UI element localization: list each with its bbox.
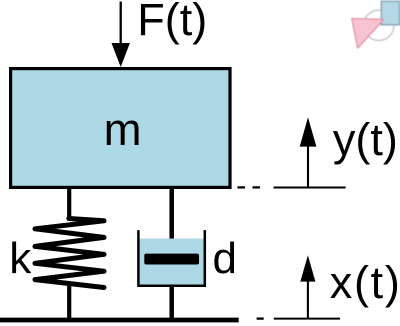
mass block m (11, 69, 230, 188)
damper liquid fill (138, 239, 204, 286)
logo square (381, 1, 399, 25)
ground line (0, 318, 239, 323)
logo circle (364, 10, 394, 40)
y(t) arrow (300, 117, 317, 187)
svg-text:k: k (9, 234, 32, 283)
force arrow F(t) (112, 2, 130, 68)
svg-text:m: m (104, 104, 142, 155)
x reference line (274, 318, 340, 320)
spring rod top (67, 188, 71, 220)
damper cup walls (138, 230, 204, 286)
x(t) arrow (300, 255, 315, 318)
spring k zigzag (35, 219, 104, 288)
svg-text:x(t): x(t) (330, 257, 400, 308)
dashes from mass to y reference (238, 186, 261, 188)
spring rod bottom (67, 284, 71, 320)
dash from ground to x reference (257, 317, 264, 319)
damper rod bottom (169, 287, 174, 320)
svg-text:F(t): F(t) (137, 0, 207, 45)
svg-text:d: d (213, 234, 237, 283)
damper rod top (169, 188, 174, 257)
logo triangle (352, 19, 384, 49)
y reference line (274, 187, 346, 189)
damper piston plate (144, 254, 199, 265)
svg-text:y(t): y(t) (333, 114, 398, 165)
